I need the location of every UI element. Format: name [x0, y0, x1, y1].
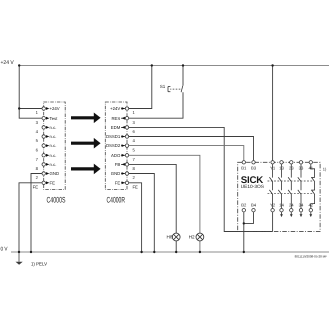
- svg-text:n.c.: n.c.: [50, 143, 57, 148]
- svg-text:n.c.: n.c.: [50, 125, 57, 130]
- svg-text:C4000S: C4000S: [47, 196, 66, 205]
- svg-text:+24V: +24V: [50, 106, 60, 111]
- svg-text:ADO: ADO: [111, 153, 121, 158]
- svg-text:FE: FE: [133, 185, 139, 190]
- svg-text:UE10-3OS: UE10-3OS: [241, 184, 264, 189]
- svg-text:OSSD1: OSSD1: [106, 134, 121, 139]
- svg-text:FB: FB: [115, 162, 121, 167]
- svg-text:B4: B4: [251, 203, 257, 208]
- svg-text:0 V: 0 V: [1, 247, 8, 253]
- svg-text:RES: RES: [111, 116, 120, 121]
- svg-text:B2: B2: [241, 203, 247, 208]
- svg-text:+24 V: +24 V: [1, 60, 15, 66]
- svg-text:n.c.: n.c.: [50, 134, 57, 139]
- svg-text:8011119/2008-05-28 MF: 8011119/2008-05-28 MF: [295, 255, 328, 259]
- svg-text:Test: Test: [50, 116, 59, 121]
- svg-text:FE: FE: [115, 180, 121, 185]
- svg-text:H2: H2: [189, 234, 195, 239]
- svg-text:FE: FE: [33, 185, 39, 190]
- svg-text:GND: GND: [50, 171, 60, 176]
- svg-text:B3: B3: [251, 165, 257, 170]
- svg-text:n.c.: n.c.: [50, 153, 57, 158]
- svg-text:GND: GND: [111, 171, 121, 176]
- svg-text:FE: FE: [50, 180, 56, 185]
- svg-text:OSSD2: OSSD2: [106, 143, 121, 148]
- svg-text:+24V: +24V: [110, 106, 120, 111]
- svg-text:EDM: EDM: [111, 125, 121, 130]
- svg-text:1) PELV: 1) PELV: [31, 261, 48, 267]
- svg-text:n.c.: n.c.: [50, 162, 57, 167]
- svg-text:C4000R: C4000R: [107, 196, 126, 205]
- svg-text:B1: B1: [241, 165, 247, 170]
- svg-text:H8: H8: [167, 234, 173, 239]
- svg-text:S1: S1: [160, 84, 166, 89]
